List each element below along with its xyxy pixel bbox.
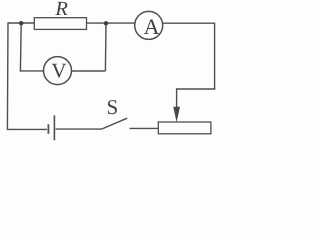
svg-text:S: S: [107, 95, 119, 119]
wire left vertical: [6, 22, 9, 130]
svg-text:V: V: [51, 59, 66, 83]
battery long plate: [53, 115, 55, 140]
wire battery to switch: [56, 128, 102, 130]
wire voltmeter branch left horizontal: [20, 70, 44, 72]
rheostat wiper arrow: [173, 107, 180, 123]
voltmeter V: [44, 57, 72, 85]
svg-text:A: A: [144, 14, 160, 39]
wire voltmeter branch left vertical: [19, 23, 22, 71]
wire resistor to ammeter: [87, 22, 136, 24]
wire voltmeter branch right horizontal: [71, 70, 105, 72]
rheostat: [158, 122, 211, 134]
resistor R: [34, 18, 86, 30]
wire bottom-left to battery: [7, 128, 47, 130]
wire right vertical: [214, 23, 216, 90]
wire step to rheostat wiper: [177, 89, 216, 108]
battery short plate: [47, 124, 49, 134]
node junction dot left: [19, 21, 23, 25]
svg-text:R: R: [54, 0, 68, 20]
wire top-left segment: [8, 22, 34, 24]
wire switch to rheostat: [130, 127, 159, 129]
switch S blade: [102, 118, 127, 129]
wire voltmeter branch right vertical: [104, 23, 107, 71]
wire ammeter to top-right corner: [163, 22, 215, 24]
ammeter A: [135, 11, 163, 39]
node junction dot right: [104, 21, 108, 25]
